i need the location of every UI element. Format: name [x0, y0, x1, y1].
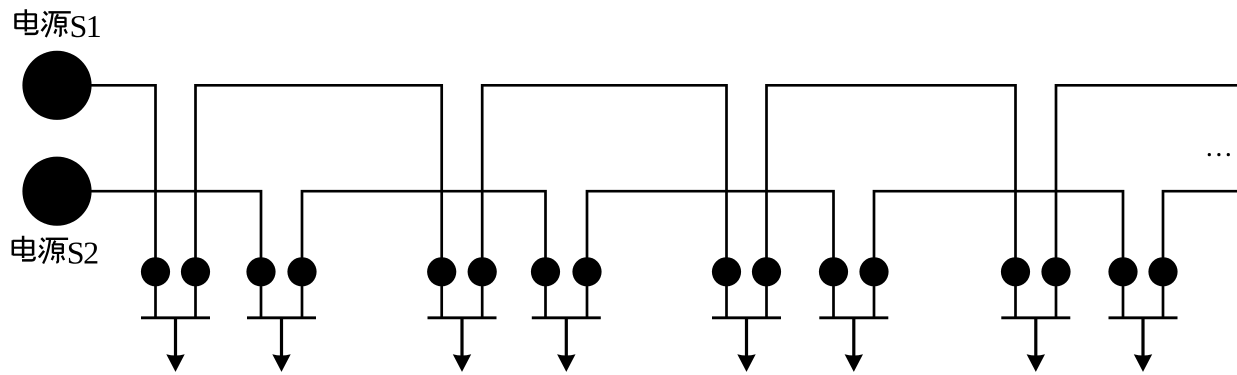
busbar load L2	[247, 316, 316, 319]
wire: S2 bus jumper from load L8 right branch to right edge	[1163, 191, 1237, 318]
breaker dot load L2 left	[246, 257, 275, 286]
load arrow L4	[557, 317, 575, 372]
load arrow L2	[272, 317, 290, 372]
wire: S1 bus jumper from load L1 right branch to load L3 left branch	[196, 85, 442, 318]
svg-text:S1: S1	[70, 8, 101, 44]
busbar load L5	[712, 316, 781, 319]
busbar load L6	[819, 316, 888, 319]
load arrow L8	[1134, 317, 1152, 372]
wire: S2 feeder from source to load L2 left branch	[57, 191, 261, 318]
label 电源S1	[15, 8, 100, 44]
wire: S1 bus jumper from load L7 right branch to right edge	[1056, 85, 1237, 318]
busbar load L3	[428, 316, 497, 319]
wire: S2 bus jumper from load L4 right branch to load L6 left branch	[587, 191, 834, 318]
breaker dot load L5 right	[752, 257, 781, 286]
svg-text:S2: S2	[67, 235, 98, 271]
breaker dot load L3 left	[427, 257, 456, 286]
busbar load L8	[1109, 316, 1178, 319]
ellipsis continuation dots	[1208, 153, 1230, 156]
wire: S1 feeder from source to load L1 left branch	[57, 85, 156, 318]
breaker dot load L5 left	[712, 257, 741, 286]
load arrow L6	[845, 317, 863, 372]
busbar load L1	[141, 316, 210, 319]
breaker dot load L6 right	[859, 257, 888, 286]
power source S2	[22, 157, 91, 226]
breaker dot load L7 right	[1041, 257, 1070, 286]
wire: S1 bus jumper from load L5 right branch to load L7 left branch	[767, 85, 1016, 318]
load arrow L7	[1027, 317, 1045, 372]
label 电源S2	[13, 235, 98, 271]
breaker dot load L1 left	[141, 257, 170, 286]
wire: S1 bus jumper from load L3 right branch to load L5 left branch	[482, 85, 726, 318]
breaker dot load L4 right	[572, 257, 601, 286]
power source S1	[22, 51, 91, 120]
busbar load L7	[1001, 316, 1070, 319]
wire: S2 bus jumper from load L2 right branch to load L4 left branch	[302, 191, 546, 318]
load arrow L5	[737, 317, 755, 372]
load arrow L1	[166, 317, 184, 372]
busbar load L4	[532, 316, 601, 319]
breaker dot load L8 right	[1148, 257, 1177, 286]
breaker dot load L8 left	[1108, 257, 1137, 286]
breaker dot load L6 left	[819, 257, 848, 286]
wire: S2 bus jumper from load L6 right branch to load L8 left branch	[874, 191, 1123, 318]
breaker dot load L3 right	[468, 257, 497, 286]
breaker dot load L4 left	[531, 257, 560, 286]
breaker dot load L2 right	[287, 257, 316, 286]
load arrow L3	[453, 317, 471, 372]
breaker dot load L7 left	[1001, 257, 1030, 286]
breaker dot load L1 right	[181, 257, 210, 286]
